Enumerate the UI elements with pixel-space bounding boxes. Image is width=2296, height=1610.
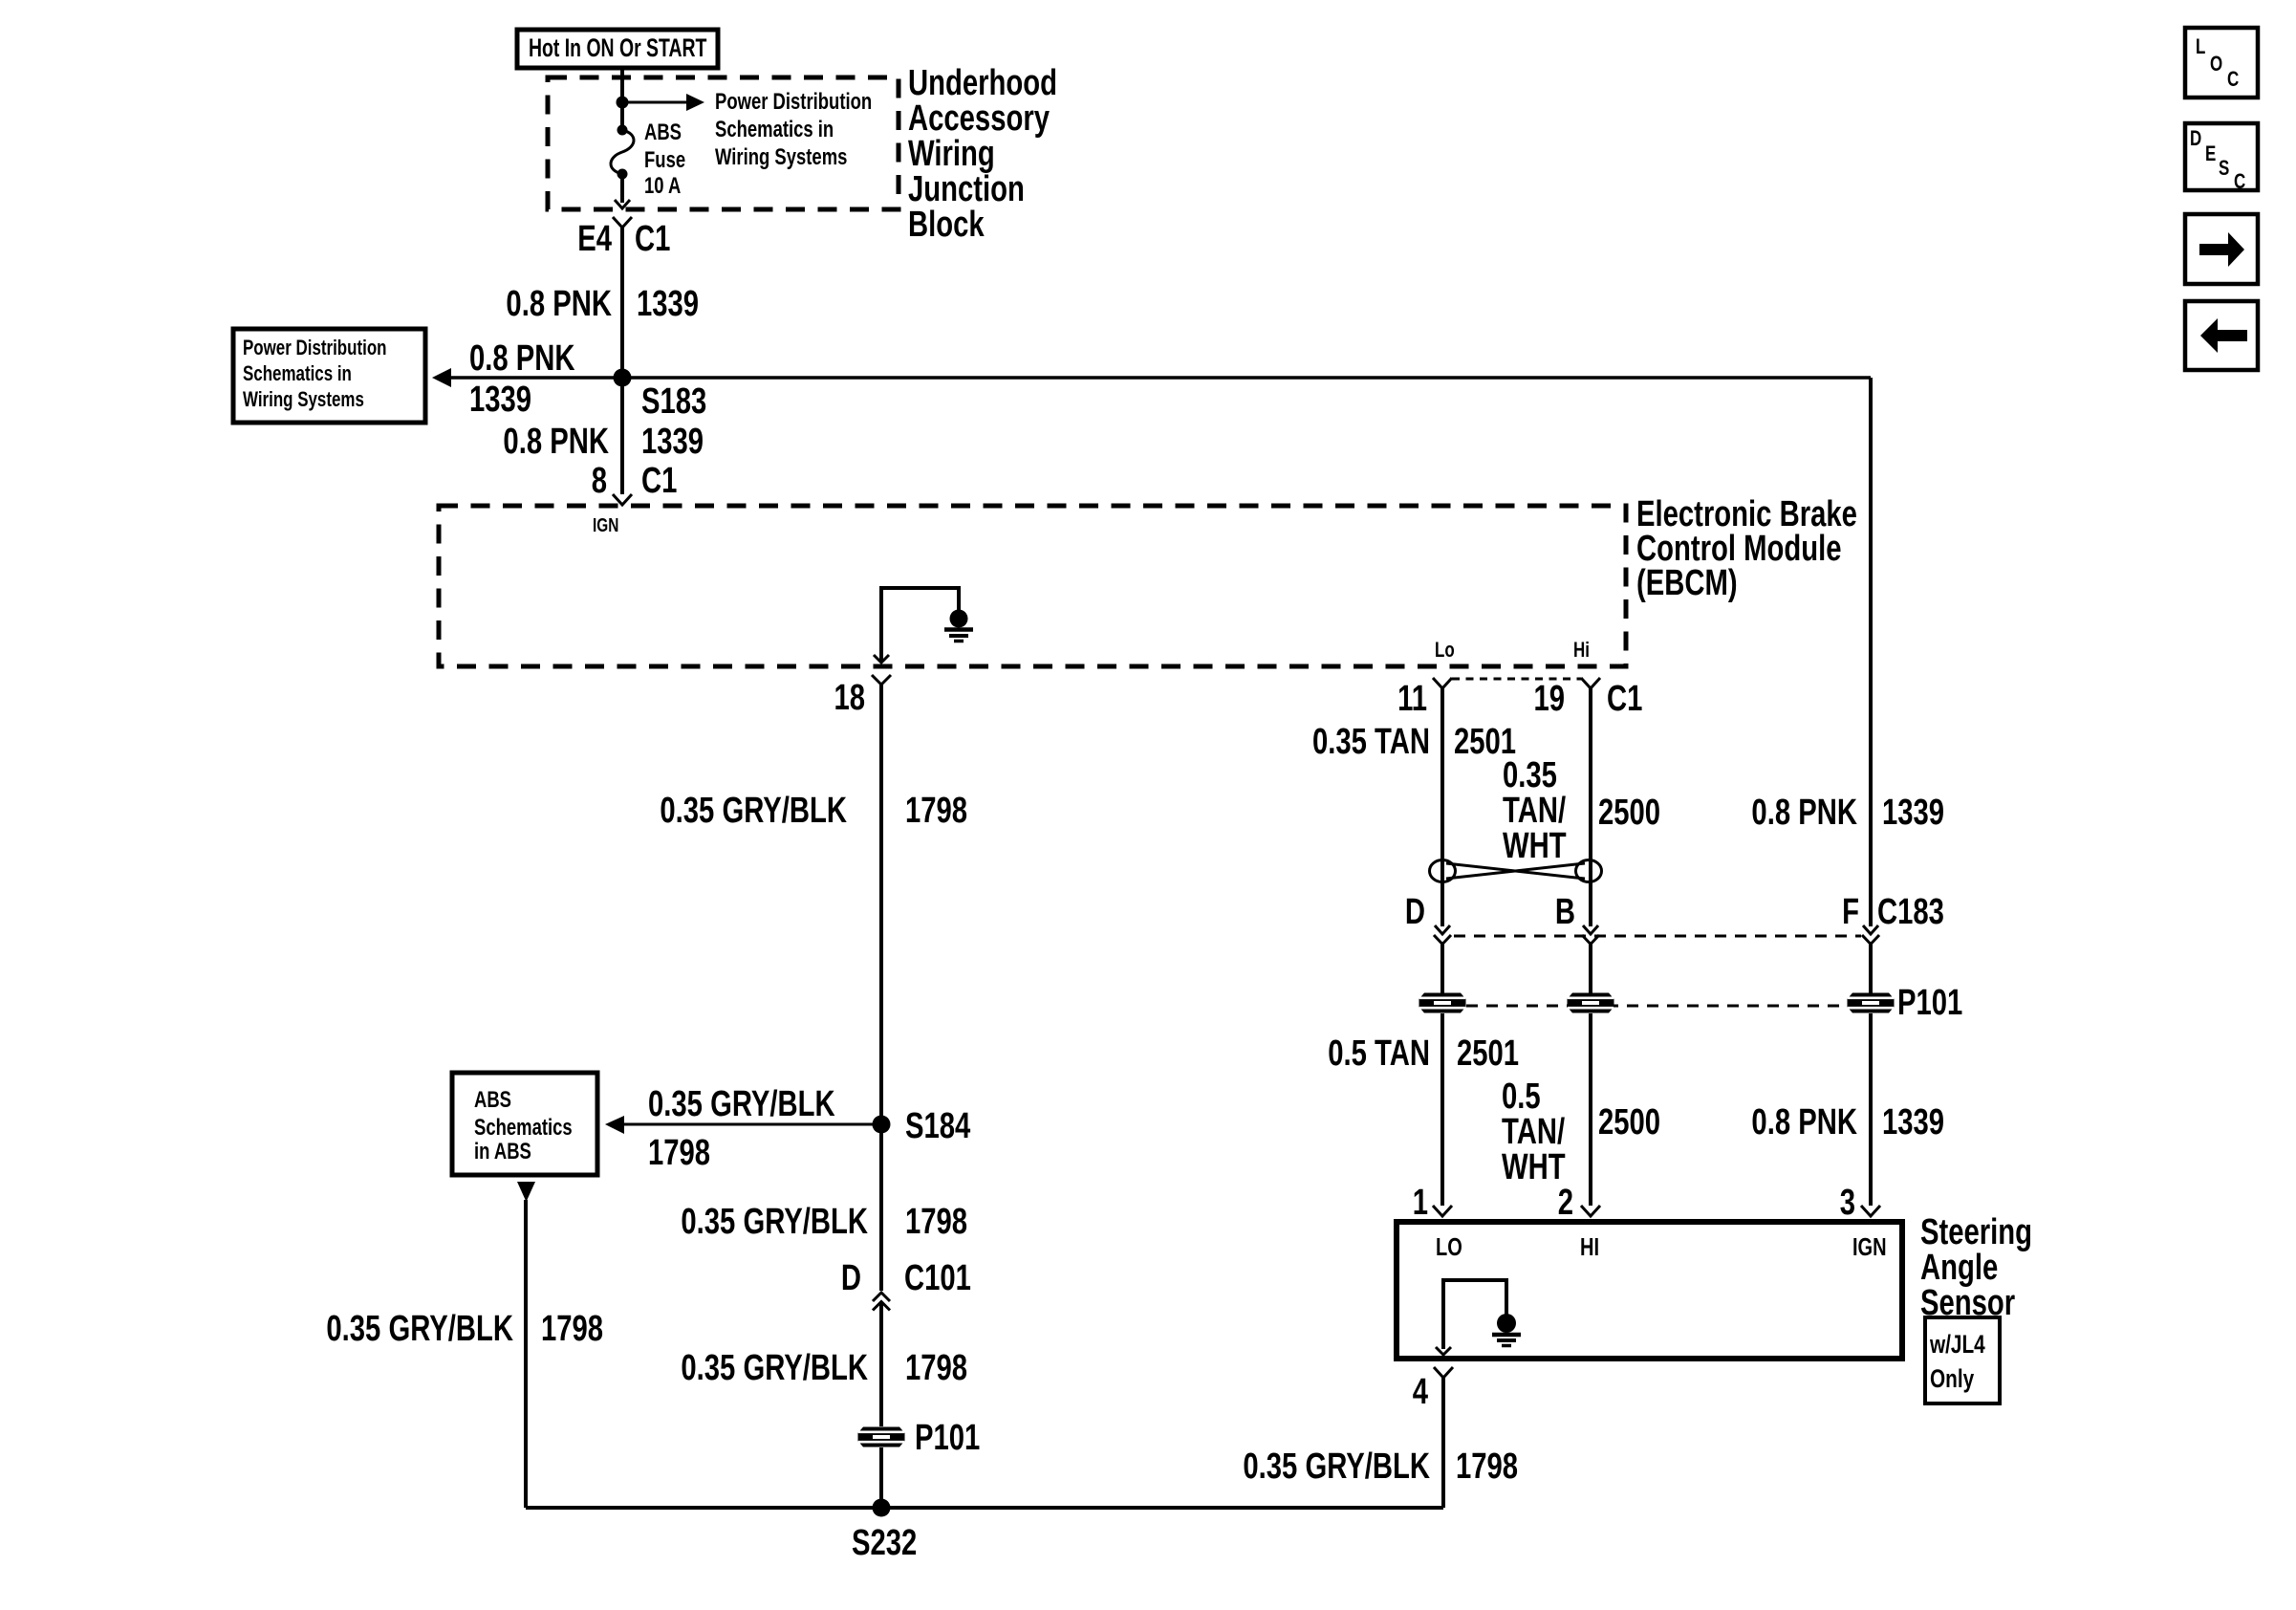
- svg-text:1798: 1798: [648, 1132, 710, 1173]
- wire Lo pin 11 down: [1440, 688, 1444, 926]
- svg-text:0.8 PNK: 0.8 PNK: [469, 337, 575, 379]
- node Steering Angle Sensor box: [1397, 1222, 1902, 1359]
- svg-text:D: D: [2190, 127, 2201, 151]
- svg-text:0.35 TAN: 0.35 TAN: [1312, 721, 1430, 762]
- svg-text:1339: 1339: [1882, 1101, 1944, 1142]
- wire C101 down to P101 grommet: [879, 1302, 883, 1426]
- svg-text:1798: 1798: [1456, 1446, 1518, 1487]
- svg-text:S184: S184: [905, 1105, 970, 1146]
- svg-text:C183: C183: [1877, 891, 1944, 932]
- node Power Distribution Schematics box (left): [233, 329, 425, 423]
- svg-text:1339: 1339: [637, 283, 699, 324]
- svg-text:0.35 GRY/BLK: 0.35 GRY/BLK: [648, 1083, 835, 1124]
- svg-text:P101: P101: [1897, 982, 1962, 1023]
- label Underhood Accessory Wiring Junction Block: [908, 62, 1057, 245]
- node w/JL4 Only box: [1925, 1317, 2000, 1403]
- svg-text:Schematics in: Schematics in: [715, 117, 834, 142]
- wire sensor internal run to ground: [1443, 1280, 1506, 1349]
- connector C101 chevrons: [873, 1293, 890, 1311]
- svg-text:Wiring Systems: Wiring Systems: [715, 144, 847, 170]
- wire Hi pin 19 down: [1589, 688, 1592, 926]
- connector C183 dashed line: [1454, 935, 1861, 938]
- grommet P101 on PNK wire: [1848, 993, 1895, 1013]
- connector pin 4 fork: [1434, 1367, 1453, 1378]
- svg-text:Only: Only: [1930, 1364, 1975, 1393]
- svg-text:Schematics: Schematics: [474, 1115, 573, 1141]
- svg-text:0.35 GRY/BLK: 0.35 GRY/BLK: [326, 1308, 513, 1349]
- twisted pair symbol: [1430, 860, 1602, 882]
- svg-text:C1: C1: [635, 218, 670, 259]
- svg-text:1798: 1798: [905, 1347, 967, 1388]
- svg-text:P101: P101: [915, 1417, 980, 1458]
- connector C1 fork pin 11: [1433, 678, 1452, 688]
- svg-text:C101: C101: [904, 1257, 971, 1298]
- svg-text:0.8 PNK: 0.8 PNK: [1751, 792, 1857, 833]
- svg-text:1339: 1339: [469, 379, 531, 420]
- label Electronic Brake Control Module (EBCM): [1636, 493, 1857, 603]
- grommet P101 (bottom): [858, 1427, 905, 1447]
- svg-text:Power Distribution: Power Distribution: [715, 89, 872, 115]
- wires between C183 and P101 grommets: [1440, 944, 1444, 993]
- ground inside sensor: [1492, 1314, 1521, 1346]
- svg-text:O: O: [2210, 53, 2222, 76]
- svg-text:ABS: ABS: [474, 1087, 511, 1113]
- wire right 0.8 PNK from S183 down to C183: [1869, 378, 1873, 926]
- svg-text:E4: E4: [577, 218, 612, 259]
- label 0.35 TAN/ WHT: [1503, 754, 1567, 866]
- connector forks pins 1 2 3: [1433, 1206, 1452, 1216]
- fuse ABS Fuse 10 A: [611, 125, 634, 180]
- node junction dot branch: [617, 97, 629, 109]
- svg-text:IGN: IGN: [593, 514, 618, 535]
- wire pin 4 down: [1441, 1378, 1445, 1508]
- svg-text:Hot In ON Or START: Hot In ON Or START: [529, 33, 707, 62]
- wire S184 branch to ABS box with arrow: [617, 1123, 881, 1126]
- wire ABS box down to bottom run: [524, 1200, 528, 1508]
- wire C1 dotted connector line: [1452, 678, 1581, 681]
- node S232 junction dot: [873, 1499, 891, 1517]
- node Hot In ON Or START box: [517, 30, 718, 68]
- svg-text:in ABS: in ABS: [474, 1139, 531, 1164]
- grommet P101 on Lo wire: [1419, 993, 1466, 1013]
- svg-text:Fuse: Fuse: [644, 147, 685, 173]
- wire S183 horizontal with left arrow: [442, 376, 1871, 380]
- button back arrow: [2185, 301, 2258, 370]
- arrow into ABS box: [517, 1182, 535, 1202]
- connector C183 arrows pin D: [1434, 925, 1451, 945]
- svg-text:Block: Block: [908, 204, 985, 245]
- wire pin 18 down to C101: [879, 685, 883, 1291]
- label 0.5 TAN/ WHT: [1502, 1076, 1566, 1187]
- wire E4 down to S183: [620, 228, 624, 494]
- svg-text:(EBCM): (EBCM): [1636, 562, 1738, 603]
- button next arrow: [2185, 214, 2258, 284]
- svg-text:11: 11: [1397, 678, 1427, 719]
- connector C1 fork pin 19: [1581, 678, 1600, 688]
- svg-text:0.35 GRY/BLK: 0.35 GRY/BLK: [660, 790, 847, 831]
- wire bottom horizontal run: [526, 1506, 1443, 1510]
- svg-text:0.35 GRY/BLK: 0.35 GRY/BLK: [681, 1347, 868, 1388]
- node S184 junction dot: [873, 1116, 891, 1134]
- svg-text:w/JL4: w/JL4: [1929, 1330, 1985, 1359]
- svg-text:Lo: Lo: [1435, 639, 1455, 663]
- wire branch to Power Distribution reference arrow: [622, 101, 687, 104]
- svg-text:C: C: [2227, 68, 2239, 92]
- svg-text:18: 18: [834, 677, 865, 718]
- svg-text:4: 4: [1413, 1371, 1428, 1412]
- Electronic Brake Control Module dashed box: [439, 506, 1626, 666]
- svg-text:2500: 2500: [1598, 792, 1660, 833]
- wire grommet to S232: [879, 1447, 883, 1508]
- wire from Hot In box down to fuse: [620, 68, 624, 130]
- svg-text:1: 1: [1413, 1182, 1428, 1223]
- svg-text:WHT: WHT: [1503, 825, 1567, 866]
- svg-text:Wiring Systems: Wiring Systems: [243, 388, 364, 412]
- svg-text:10 A: 10 A: [644, 173, 681, 199]
- label ABS Fuse 10 A: [644, 120, 685, 199]
- svg-text:S232: S232: [852, 1522, 917, 1563]
- ground inside EBCM: [944, 610, 973, 642]
- svg-text:0.8 PNK: 0.8 PNK: [506, 283, 612, 324]
- svg-text:2501: 2501: [1457, 1033, 1519, 1074]
- svg-text:C1: C1: [641, 460, 677, 501]
- svg-text:19: 19: [1533, 678, 1565, 719]
- svg-text:Hi: Hi: [1573, 639, 1590, 663]
- node ABS Schematics in ABS box: [452, 1073, 597, 1175]
- connector C183 arrows pin B: [1582, 925, 1599, 945]
- node S183 junction dot: [614, 369, 632, 387]
- button LOC: [2185, 28, 2258, 98]
- button DESC: [2185, 123, 2258, 194]
- svg-text:E: E: [2205, 142, 2216, 166]
- svg-text:S183: S183: [641, 381, 706, 422]
- svg-text:1798: 1798: [905, 1201, 967, 1242]
- label Steering Angle Sensor: [1920, 1211, 2032, 1323]
- svg-text:1798: 1798: [541, 1308, 603, 1349]
- svg-text:IGN: IGN: [1852, 1232, 1887, 1260]
- svg-text:D: D: [841, 1257, 861, 1298]
- svg-text:B: B: [1555, 891, 1575, 932]
- svg-text:F: F: [1842, 891, 1859, 932]
- svg-text:0.35 GRY/BLK: 0.35 GRY/BLK: [1243, 1446, 1430, 1487]
- label Power Distribution Schematics in Wiring Systems (top): [715, 89, 872, 170]
- svg-text:ABS: ABS: [644, 120, 682, 145]
- svg-text:2500: 2500: [1598, 1101, 1660, 1142]
- svg-text:LO: LO: [1436, 1232, 1462, 1260]
- svg-text:WHT: WHT: [1502, 1146, 1566, 1187]
- connector E4 C1 fork: [613, 217, 632, 228]
- svg-text:0.35 GRY/BLK: 0.35 GRY/BLK: [681, 1201, 868, 1242]
- wires grommets down to steering sensor pins: [1440, 1013, 1444, 1206]
- svg-text:C1: C1: [1607, 678, 1642, 719]
- svg-text:HI: HI: [1580, 1232, 1599, 1260]
- connector pin 18 fork below EBCM: [872, 675, 891, 685]
- svg-text:S: S: [2219, 157, 2229, 181]
- svg-text:L: L: [2196, 35, 2205, 59]
- connector pin 8 fork at EBCM edge: [613, 494, 632, 505]
- svg-text:0.5 TAN: 0.5 TAN: [1328, 1033, 1430, 1074]
- Underhood Accessory Wiring Junction Block dashed box: [548, 77, 899, 209]
- svg-text:1798: 1798: [905, 790, 967, 831]
- svg-text:Schematics in: Schematics in: [243, 362, 352, 386]
- svg-text:8: 8: [592, 460, 607, 501]
- connector C183 arrows pin F: [1862, 925, 1879, 945]
- svg-text:0.8 PNK: 0.8 PNK: [1751, 1101, 1857, 1142]
- svg-text:D: D: [1405, 891, 1425, 932]
- svg-text:3: 3: [1840, 1182, 1855, 1223]
- svg-text:1339: 1339: [641, 421, 704, 462]
- wire EBCM internal ground run: [881, 588, 959, 663]
- svg-text:1339: 1339: [1882, 792, 1944, 833]
- wire fuse to junction block edge with arrowhead: [620, 174, 624, 203]
- svg-text:0.8 PNK: 0.8 PNK: [503, 421, 609, 462]
- connector P101 dashed line: [1466, 1005, 1846, 1008]
- svg-text:Power Distribution: Power Distribution: [243, 337, 387, 360]
- grommet P101 on Hi wire: [1568, 993, 1614, 1013]
- svg-text:C: C: [2234, 170, 2245, 194]
- svg-text:2: 2: [1558, 1182, 1573, 1223]
